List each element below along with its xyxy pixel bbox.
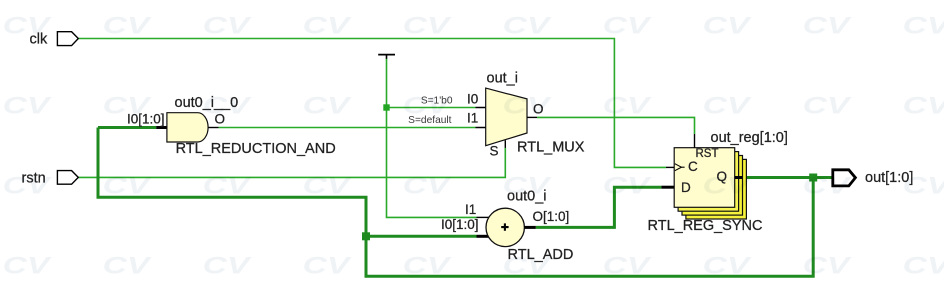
svg-text:CV: CV <box>203 13 253 39</box>
svg-text:CV: CV <box>3 173 53 199</box>
svg-text:I1: I1 <box>467 111 478 126</box>
svg-text:CV: CV <box>503 173 553 199</box>
svg-text:RTL_MUX: RTL_MUX <box>517 140 585 156</box>
constant driver T symbol (1'b0) <box>378 54 395 56</box>
register out_reg[1:0] stacked body (back layers) <box>686 159 747 219</box>
svg-text:CV: CV <box>903 13 944 39</box>
svg-text:RTL_REG_SYNC: RTL_REG_SYNC <box>648 218 763 234</box>
svg-text:CV: CV <box>103 13 153 39</box>
svg-text:CV: CV <box>403 253 453 279</box>
svg-text:CV: CV <box>303 93 353 119</box>
svg-text:out_i: out_i <box>487 71 518 87</box>
svg-text:CV: CV <box>603 13 653 39</box>
svg-text:CV: CV <box>103 93 153 119</box>
wire const0 branch to MUX I0 <box>387 107 476 109</box>
svg-text:CV: CV <box>303 173 353 199</box>
wire bus branch to adder I0 <box>366 235 477 238</box>
register out_reg[1:0] front body <box>674 148 735 208</box>
svg-text:CV: CV <box>703 93 753 119</box>
svg-text:CV: CV <box>103 253 153 279</box>
wire: MUX output O to register RST pin <box>537 117 695 134</box>
svg-text:CV: CV <box>903 173 944 199</box>
svg-text:RTL_REDUCTION_AND: RTL_REDUCTION_AND <box>176 141 336 157</box>
svg-text:CV: CV <box>303 13 353 39</box>
register Q pin stub <box>735 176 743 179</box>
wire out[1:0] feedback bus: down from out port junction, left along bottom, up to AND input <box>98 128 813 277</box>
mux out_i output pin stub O <box>527 116 537 118</box>
svg-text:CV: CV <box>603 253 653 279</box>
svg-text:CV: CV <box>703 13 753 39</box>
svg-text:CV: CV <box>803 13 853 39</box>
node junction: Q bus at out port <box>809 174 817 182</box>
svg-text:CV: CV <box>3 93 53 119</box>
svg-text:O[1:0]: O[1:0] <box>533 209 570 224</box>
svg-text:CV: CV <box>603 93 653 119</box>
svg-text:CV: CV <box>103 173 153 199</box>
gate out0_i__0 output pin stub O <box>208 127 218 129</box>
svg-text:CV: CV <box>303 253 353 279</box>
svg-text:CV: CV <box>703 253 753 279</box>
svg-text:CV: CV <box>203 93 253 119</box>
input port clk <box>57 32 78 46</box>
svg-text:CV: CV <box>3 13 53 39</box>
output port out[1:0] <box>833 170 856 186</box>
adder out0_i body (circle) <box>486 208 524 246</box>
svg-text:CV: CV <box>403 173 453 199</box>
svg-text:S: S <box>490 144 499 159</box>
wire: AND gate output O to MUX I1 <box>219 127 476 129</box>
node junction: feedback bus to adder I0 <box>362 232 370 240</box>
wire bus: register Q to out port <box>742 176 832 179</box>
svg-text:CV: CV <box>403 93 453 119</box>
reduction-and gate out0_i__0 body <box>167 113 208 142</box>
svg-text:CV: CV <box>503 253 553 279</box>
node junction on const0 net <box>383 104 389 110</box>
register D pin stub <box>661 186 674 189</box>
mux out_i input pin stubs I0 and I1 <box>476 108 486 128</box>
svg-text:RST: RST <box>696 148 719 160</box>
wire bus: adder output O[1:0] to register D <box>536 187 662 227</box>
svg-text:CV: CV <box>403 13 453 39</box>
svg-text:CV: CV <box>903 93 944 119</box>
svg-text:CV: CV <box>803 173 853 199</box>
register RST pin stub <box>694 134 696 148</box>
wire clk net: clk port to register C pin (via x=614.4) <box>79 39 667 168</box>
register C pin stub <box>666 166 674 168</box>
svg-text:I0: I0 <box>467 92 478 107</box>
adder out0_i input pin stub I0[1:0] <box>477 235 490 238</box>
svg-text:out_reg[1:0]: out_reg[1:0] <box>711 130 788 146</box>
svg-text:I1: I1 <box>465 202 476 217</box>
wire const0 net: vertical from T-bar down to adder I1 <box>387 58 477 217</box>
mux out_i select pin stub S <box>504 140 506 148</box>
input port rstn <box>57 171 78 185</box>
svg-text:CV: CV <box>803 93 853 119</box>
adder out0_i input pin stub I1 <box>477 216 490 218</box>
wire bus segment into AND gate input <box>98 126 156 129</box>
wire rstn net: rstn port to MUX S pin <box>78 148 505 178</box>
register clock triangle <box>675 164 682 171</box>
svg-text:CV: CV <box>203 173 253 199</box>
svg-text:CV: CV <box>203 253 253 279</box>
adder out0_i output pin stub O[1:0] <box>524 226 535 229</box>
svg-text:CV: CV <box>803 253 853 279</box>
svg-text:CV: CV <box>703 173 753 199</box>
svg-text:CV: CV <box>3 253 53 279</box>
svg-text:CV: CV <box>903 253 944 279</box>
svg-text:CV: CV <box>503 93 553 119</box>
mux out_i body (trapezoid) <box>486 88 527 146</box>
adder plus sign <box>501 223 508 230</box>
svg-text:I0[1:0]: I0[1:0] <box>441 217 479 232</box>
svg-text:C: C <box>688 159 698 174</box>
gate out0_i__0 input pin stub I0[1:0] <box>156 126 167 129</box>
svg-text:CV: CV <box>603 173 653 199</box>
svg-text:D: D <box>681 180 691 195</box>
svg-text:CV: CV <box>503 13 553 39</box>
